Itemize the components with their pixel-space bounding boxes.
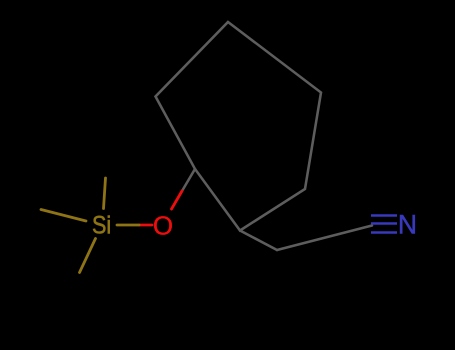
svg-text:N: N	[398, 210, 417, 240]
svg-text:O: O	[153, 210, 173, 240]
svg-text:Si: Si	[92, 212, 111, 240]
